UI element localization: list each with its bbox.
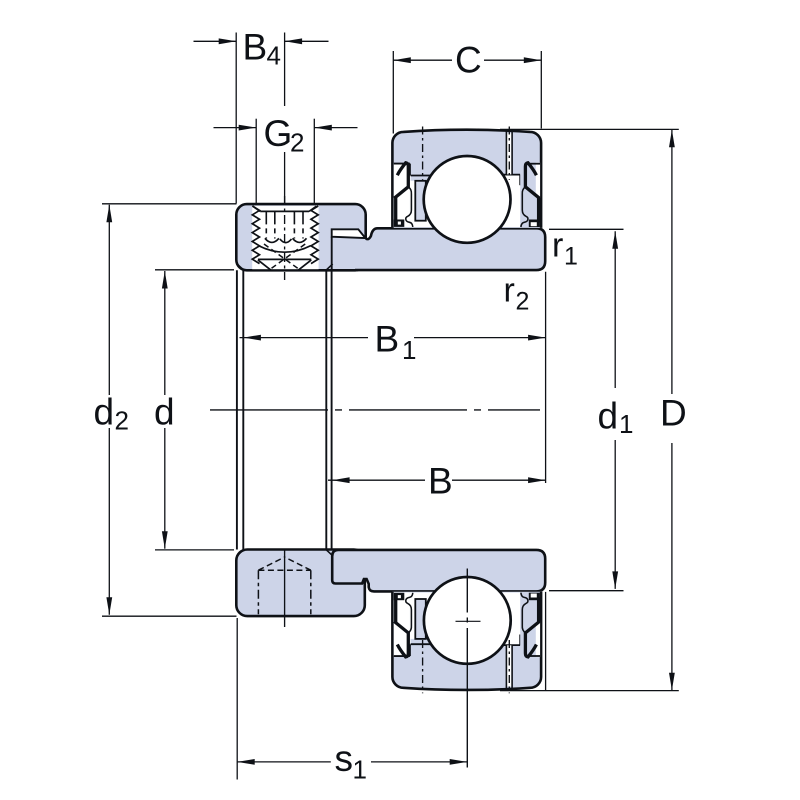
svg-text:1: 1	[402, 335, 416, 365]
socket top line	[260, 210, 309, 212]
hole centre mark left (bottom)	[422, 640, 424, 693]
dimension d extension lines	[155, 269, 234, 271]
dimension d1 extension lines (and r1 reference line)	[549, 228, 624, 230]
lubrication hole (top right)	[507, 133, 512, 174]
drill point hidden cross	[264, 244, 305, 269]
collar/ring silhouette lines (middle)	[237, 270, 332, 549]
socket arcs	[258, 238, 310, 252]
dimension B1	[240, 337, 369, 339]
socket spline hidden lines	[266, 211, 303, 238]
svg-text:d: d	[94, 392, 115, 433]
svg-text:B: B	[243, 27, 268, 68]
seal with flinger right (bottom)	[525, 597, 539, 657]
dimension B	[328, 479, 425, 481]
thread entry chamfers	[253, 206, 317, 211]
svg-text:4: 4	[267, 41, 281, 71]
set screw centre line (top)	[284, 196, 286, 280]
ball centre tick (bottom)	[456, 620, 481, 622]
seal pockets and shoulders (bottom)	[394, 593, 410, 657]
bearing axis centre line	[210, 409, 540, 411]
svg-text:2: 2	[290, 128, 304, 158]
dimension G2	[214, 127, 257, 129]
dimension D extension lines	[500, 128, 679, 130]
svg-text:2: 2	[115, 406, 129, 436]
seal pockets and shoulders (top)	[394, 164, 410, 228]
svg-text:2: 2	[516, 288, 530, 316]
svg-text:1: 1	[353, 755, 367, 785]
svg-text:G: G	[264, 113, 293, 154]
set screw thread zigzag left	[252, 206, 259, 264]
svg-text:r: r	[552, 227, 563, 265]
set screw thread zigzag right	[311, 206, 318, 264]
svg-text:d: d	[154, 392, 175, 433]
svg-text:1: 1	[564, 243, 578, 271]
outer ring (top, sectioned)	[392, 130, 541, 228]
seal with flinger left (top)	[394, 163, 408, 223]
dimension s1	[237, 761, 331, 763]
ball (top)	[424, 156, 511, 243]
dimension B1 right extension line	[545, 272, 547, 483]
countersink top line	[258, 258, 311, 260]
countersink flares	[258, 260, 311, 270]
outer ring (bottom, sectioned)	[392, 592, 541, 690]
svg-text:s: s	[335, 738, 354, 779]
dimension C	[393, 59, 452, 61]
svg-text:d: d	[598, 396, 619, 437]
svg-text:r: r	[504, 272, 515, 310]
collar bore chamfer marks (top)	[237, 264, 333, 270]
inner ring left face line (top)	[331, 237, 333, 270]
svg-text:1: 1	[619, 409, 633, 439]
eccentric locking collar (bottom)	[236, 550, 364, 617]
hole centre mark right (bottom)	[508, 640, 510, 693]
set screw hidden outline (bottom)	[258, 557, 310, 614]
dimension B4	[194, 40, 237, 42]
threaded hole interior	[252, 206, 318, 269]
eccentric locking collar (top, sectioned)	[236, 204, 365, 270]
inner ring extended bar (top)	[355, 228, 545, 270]
seal with flinger right (top)	[525, 163, 539, 223]
hole centre mark left (top)	[422, 127, 424, 180]
collar-to-ring gap slot (top)	[332, 229, 366, 238]
collar bore chamfer marks (bottom)	[237, 550, 333, 556]
dimension B4 extension lines	[235, 33, 237, 204]
bar right face extension line (bottom)	[545, 592, 547, 691]
inner ring extended bar (bottom)	[332, 550, 545, 592]
lubrication hole (bottom right)	[507, 645, 512, 686]
dimension d2 extension lines	[102, 203, 237, 205]
svg-text:B: B	[375, 319, 400, 360]
dimension d1	[614, 231, 616, 388]
dimension C extension lines	[392, 51, 394, 134]
set screw centre line (bottom)	[284, 551, 286, 628]
dimension D	[671, 130, 673, 394]
hole centre mark right (top)	[508, 127, 510, 180]
ball plane centre line	[466, 569, 468, 613]
dimension s1 extension line	[236, 618, 238, 780]
dimension G2 extension lines	[255, 119, 257, 204]
dimension d	[164, 271, 166, 395]
ball (bottom)	[424, 577, 511, 664]
dimension d2	[108, 205, 110, 395]
seal with flinger left (bottom)	[394, 597, 408, 657]
svg-text:C: C	[455, 40, 482, 81]
svg-text:D: D	[660, 393, 687, 434]
svg-text:B: B	[428, 461, 453, 502]
